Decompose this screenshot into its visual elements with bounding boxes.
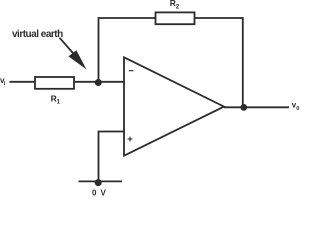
svg-text:virtual earth: virtual earth: [12, 29, 63, 40]
svg-text:2: 2: [176, 4, 180, 11]
svg-text:1: 1: [57, 99, 61, 106]
svg-text:0 V: 0 V: [92, 189, 107, 198]
svg-text:0: 0: [296, 106, 299, 112]
